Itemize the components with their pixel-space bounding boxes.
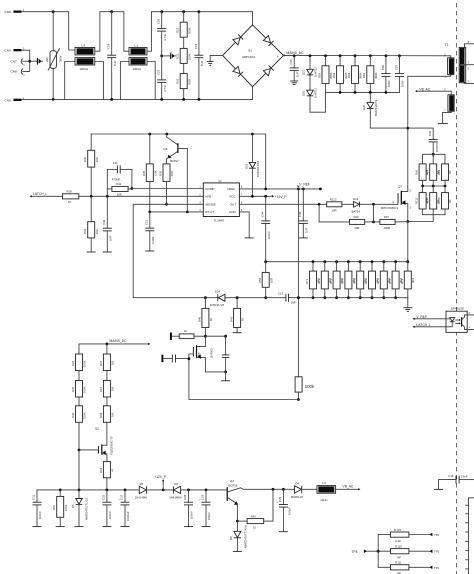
resistor R22 [176, 12, 192, 38]
ground at R39 [87, 251, 96, 253]
ground at D9 [233, 550, 242, 552]
capacitor C18 [194, 12, 204, 100]
svg-text:2.2K: 2.2K [395, 539, 401, 543]
resistor R94 [437, 164, 452, 186]
svg-text:BZX284-V18: BZX284-V18 [256, 161, 260, 177]
connector CN7 [11, 59, 30, 67]
wire MAINS_DC rail [284, 54, 451, 56]
svg-text:R111: R111 [395, 561, 402, 565]
capacitor at Q5 gate [172, 355, 189, 363]
wire rail down to bridge top [252, 12, 254, 25]
svg-text:D5: D5 [71, 504, 75, 508]
svg-text:LATCH_L: LATCH_L [416, 323, 430, 327]
diode D12 BAT54 [352, 197, 374, 213]
svg-text:10R: 10R [269, 278, 273, 283]
svg-text:C49: C49 [102, 219, 106, 225]
test point TP3 [429, 533, 439, 537]
svg-text:D8: D8 [174, 482, 178, 486]
shunt resistor R79 [400, 260, 415, 297]
svg-text:TP2: TP2 [434, 550, 440, 554]
node C28 [187, 489, 190, 492]
node CN4/CN7/CN8 junction [28, 60, 31, 63]
svg-text:D4: D4 [295, 481, 299, 485]
node R35 on SENSE line [165, 203, 168, 206]
svg-text:C11: C11 [113, 161, 118, 165]
node C25 bottom [160, 98, 163, 101]
resistor R34 [71, 344, 87, 381]
wire D30 to primary drain node [370, 127, 408, 129]
resistor R43 [237, 514, 273, 529]
svg-text:6.8K: 6.8K [154, 170, 158, 176]
optocoupler U5 SFH6106 [446, 306, 474, 332]
connector block right edge [466, 498, 474, 574]
svg-text:CN4: CN4 [5, 49, 11, 53]
svg-text:C33: C33 [201, 494, 205, 500]
svg-text:L4: L4 [82, 43, 86, 47]
ground at C33 [202, 526, 211, 528]
svg-text:1M: 1M [111, 412, 115, 417]
svg-text:1UF: 1UF [200, 60, 204, 66]
sense line mid segment [225, 297, 286, 299]
svg-text:R36: R36 [71, 386, 75, 392]
svg-text:D: D [410, 190, 412, 193]
Q3 collector line [243, 488, 294, 490]
svg-text:VCC: VCC [229, 195, 236, 199]
resistor R45 [142, 134, 158, 212]
svg-text:R37: R37 [99, 360, 103, 366]
transistor Q7 SPP17N80C3 [381, 185, 412, 222]
svg-text:MURS160T3: MURS160T3 [374, 99, 378, 116]
ground at C37 [121, 526, 130, 528]
capacitor C31 [32, 490, 43, 526]
resistor R63 [99, 462, 115, 490]
node V_REF vertical [297, 188, 300, 191]
ground at R47 [233, 332, 242, 334]
svg-text:R39: R39 [83, 228, 87, 234]
diode D30 [362, 92, 378, 128]
svg-text:R68: R68 [99, 412, 103, 418]
svg-text:Q3: Q3 [230, 479, 234, 483]
svg-text:T1: T1 [445, 43, 449, 47]
svg-text:+12V_P: +12V_P [275, 195, 288, 199]
svg-text:SPP17N80C3: SPP17N80C3 [381, 206, 399, 210]
svg-text:1UF: 1UF [295, 71, 299, 77]
node cap top [224, 335, 227, 338]
svg-text:R67: R67 [99, 386, 103, 392]
svg-text:VB_AC: VB_AC [419, 87, 430, 91]
svg-text:R41: R41 [116, 182, 122, 186]
capacitor C12 [278, 292, 296, 305]
wire Q5 drain to snubber cap [205, 335, 225, 337]
test point TP2 [429, 549, 439, 553]
svg-text:3.9nF: 3.9nF [460, 474, 467, 478]
svg-text:R64: R64 [332, 72, 336, 78]
node R33 bottom [182, 98, 185, 101]
capacitor C44 [261, 196, 271, 261]
svg-text:200K: 200K [187, 78, 191, 85]
svg-text:D6: D6 [140, 482, 144, 486]
svg-text:R33: R33 [176, 78, 180, 84]
svg-text:C26: C26 [157, 18, 161, 24]
inductor L4 (common-mode choke) [75, 43, 95, 70]
wire D20 loop to lower snubber bus [310, 92, 326, 112]
svg-text:D24: D24 [215, 289, 221, 293]
svg-text:MAINS_DC: MAINS_DC [110, 339, 128, 343]
svg-text:1K: 1K [209, 317, 213, 321]
capacitor C66 [428, 130, 439, 154]
capacitor C80 [381, 54, 391, 93]
svg-text:C29: C29 [278, 496, 282, 502]
svg-text:B1: B1 [249, 49, 253, 53]
svg-text:BCP56: BCP56 [229, 484, 238, 488]
earth ground at bridge [207, 62, 214, 66]
node R22 top [182, 10, 185, 13]
svg-text:10: 10 [253, 526, 257, 530]
wire L4 bottom-left to bottom rail [65, 62, 76, 100]
svg-text:2N7002: 2N7002 [209, 348, 213, 358]
svg-text:200K: 200K [187, 27, 191, 34]
svg-text:100nF: 100nF [108, 511, 112, 519]
svg-text:C30: C30 [289, 59, 293, 65]
svg-text:C32: C32 [102, 494, 106, 500]
svg-text:C66: C66 [428, 130, 432, 136]
resistor R39 [83, 196, 99, 251]
node bottom rail / varistor [52, 98, 55, 101]
test point network node [351, 535, 390, 568]
svg-text:1NF: 1NF [291, 300, 297, 304]
wire COMP line [132, 188, 203, 190]
wire L1 bottom-right to bottom rail [147, 62, 155, 100]
connector CN4 [5, 47, 30, 61]
wire OUT pin line [239, 203, 326, 205]
wire L1 top-right up to rail [147, 12, 253, 52]
svg-text:R83: R83 [362, 72, 366, 78]
zener D23 [244, 134, 260, 196]
wire L1 bottom-left to bottom rail [120, 62, 129, 100]
node D23 top on VREF rail [251, 133, 254, 136]
node gate divider [78, 449, 81, 452]
svg-text:BC817: BC817 [170, 159, 179, 163]
node R45 top on VREF rail [148, 133, 151, 136]
svg-text:100nF: 100nF [267, 231, 271, 239]
diode D4 MURD-20 [291, 481, 317, 499]
net label VB_AC at L3 [336, 485, 361, 491]
node C49/C11 on VFB line [106, 195, 109, 198]
sense line right segment [289, 297, 408, 299]
node Q7 source / R27 / snubber return [406, 220, 409, 223]
transistor Q2 FQD2N60C [79, 427, 114, 462]
node C44 top on VCC [264, 195, 267, 198]
resistor R40 [83, 134, 99, 196]
svg-text:R110: R110 [395, 544, 402, 548]
ground at D5 [75, 526, 84, 528]
svg-text:10K: 10K [95, 229, 99, 234]
node VREF rail joins pin line [264, 188, 267, 191]
terminal bar 1k input [170, 333, 179, 340]
resistor R110 [391, 544, 430, 559]
svg-text:47: 47 [111, 468, 115, 472]
node Q3 emitter [236, 520, 239, 523]
svg-text:CN8: CN8 [11, 70, 17, 74]
svg-text:4.7nF: 4.7nF [163, 85, 167, 92]
bridge rectifier B1 GBPC604 diamond [223, 25, 284, 87]
svg-text:V_REF: V_REF [299, 183, 310, 187]
node D12 cathode / R26 top [372, 203, 375, 206]
svg-text:C18: C18 [194, 43, 198, 49]
svg-text:TP3: TP3 [434, 533, 440, 537]
net label +12V_P [154, 475, 167, 491]
svg-text:R112: R112 [415, 197, 419, 204]
T1 secondary winding upper [459, 41, 474, 65]
svg-text:G: G [392, 201, 394, 204]
connector CN5 [5, 97, 54, 102]
svg-text:390: 390 [45, 57, 49, 62]
supply bus left segment [37, 489, 139, 491]
capacitor C49 [102, 196, 112, 251]
ground at C16 [434, 488, 443, 490]
svg-text:1N5241-V8: 1N5241-V8 [210, 303, 225, 307]
capacitor C87 [394, 54, 404, 92]
net label MAINS_DC at bridge output [284, 51, 304, 56]
resistor R35 [159, 164, 175, 204]
svg-text:C28: C28 [183, 494, 187, 500]
node C18 bottom [198, 98, 201, 101]
capacitor across Q5 [222, 336, 230, 372]
node Q5 drain [204, 335, 207, 338]
shunt resistor R71 [305, 260, 320, 299]
wire VREF rail corner down to VREF pin line [265, 134, 267, 189]
node C33 [205, 489, 208, 492]
node top rail / varistor [52, 10, 55, 13]
resistor R112 [415, 186, 430, 215]
node R43 feedback [272, 488, 275, 521]
svg-text:1K: 1K [68, 200, 72, 204]
shunt resistor R72 [317, 260, 332, 299]
ground at shunt bank [403, 298, 412, 312]
svg-text:1K8: 1K8 [170, 171, 174, 176]
svg-text:+: + [277, 55, 279, 59]
svg-text:R94: R94 [437, 169, 441, 175]
resistor R37 [99, 344, 115, 381]
resistor R50 [52, 490, 68, 526]
node C26/C25 midpoint [160, 55, 163, 58]
svg-text:D30: D30 [362, 104, 366, 110]
earth ground at C30 [290, 81, 298, 85]
svg-text:MMSZ4707T1-G1: MMSZ4707T1-G1 [84, 497, 88, 520]
wire L4 top-right up to rail [95, 12, 112, 52]
svg-text:1M: 1M [111, 360, 115, 365]
inductor L1 (common-mode choke) [129, 43, 147, 70]
resistor R67 [99, 381, 115, 406]
lower snubber bus [326, 91, 400, 93]
ground at C51 [145, 250, 154, 252]
net label +12V_P at VCC [272, 195, 287, 199]
svg-text:R44: R44 [71, 412, 75, 418]
resistor R64 [332, 54, 348, 93]
capacitor C11 [107, 161, 132, 182]
capacitor C19 [107, 12, 117, 100]
node C44/R58 on top bus [264, 260, 267, 263]
svg-text:MMSZ4707T1-GV: MMSZ4707T1-GV [243, 525, 247, 548]
svg-text:C31: C31 [32, 494, 36, 500]
svg-text:R32: R32 [176, 53, 180, 59]
shunt resistor R74 [341, 260, 356, 299]
svg-text:CN6: CN6 [5, 10, 11, 14]
svg-text:VREF: VREF [227, 187, 235, 191]
node COMP line [131, 187, 134, 190]
svg-text:D9: D9 [229, 536, 233, 540]
svg-text:2.2NF: 2.2NF [151, 236, 155, 244]
svg-text:CN5: CN5 [5, 98, 11, 102]
shunt resistor R77 [376, 260, 391, 299]
svg-text:R43: R43 [251, 514, 257, 518]
svg-text:R74: R74 [341, 278, 345, 284]
svg-text:C87: C87 [394, 64, 398, 70]
svg-text:R106: R106 [425, 197, 429, 204]
node snubber top bus [432, 153, 435, 156]
svg-text:D20: D20 [302, 90, 306, 96]
ground at R50 [56, 526, 65, 528]
svg-text:100nF: 100nF [190, 511, 194, 519]
node D21 top [309, 54, 312, 57]
node Q5 gate [188, 357, 191, 360]
net label V_REF [297, 183, 310, 188]
svg-text:100k: 100k [305, 384, 315, 389]
svg-text:OUT: OUT [230, 203, 237, 207]
node C37 [124, 489, 127, 492]
svg-text:R105: R105 [437, 197, 441, 204]
svg-text:FQD2N60C-TF: FQD2N60C-TF [110, 436, 114, 455]
wire rail to L1 top-left [112, 12, 130, 52]
transformer T1 label [445, 43, 449, 47]
svg-text:-: - [224, 55, 225, 59]
bottom rail segment [53, 98, 252, 100]
wire L4 bottom-right to bottom rail [95, 62, 104, 100]
capacitor C30 [289, 56, 299, 81]
net label VB_AC at aux winding [415, 87, 431, 92]
ground at C49 [103, 251, 112, 253]
terminal bar gate cap [161, 355, 171, 362]
svg-text:C51: C51 [145, 219, 149, 225]
snubber top bus [423, 154, 445, 164]
svg-text:100uF: 100uF [207, 512, 211, 520]
svg-text:D12: D12 [353, 197, 359, 201]
svg-text:R46: R46 [198, 316, 202, 322]
svg-text:10R: 10R [354, 226, 359, 230]
svg-text:100UH: 100UH [80, 67, 89, 71]
svg-text:1N4148W: 1N4148W [169, 495, 182, 499]
svg-text:1000uF: 1000uF [126, 511, 130, 521]
node R26/R27 junction [372, 204, 375, 223]
T1 primary winding [408, 54, 454, 79]
bridge diode bottom-right [263, 65, 273, 75]
svg-text:R63: R63 [99, 467, 103, 473]
svg-text:R72: R72 [317, 278, 321, 284]
node right chain top [106, 343, 109, 346]
svg-text:R123: R123 [394, 528, 401, 532]
svg-text:C25: C25 [157, 69, 161, 75]
capacitor C28 [183, 490, 194, 526]
svg-text:C37: C37 [120, 494, 124, 500]
svg-text:1UF: 1UF [113, 60, 117, 66]
shunt bank top bus [266, 261, 408, 263]
wire gate latch route [189, 359, 299, 400]
svg-text:100nF: 100nF [38, 511, 42, 519]
wire snubber branch to C66 [408, 128, 433, 139]
isolation boundary dashed line [456, 3, 458, 574]
svg-text:1N4148W: 1N4148W [135, 495, 148, 499]
resistor R122 [327, 198, 354, 213]
svg-text:470NF: 470NF [112, 177, 121, 181]
resistor R106 [425, 186, 440, 215]
wire RTCT line [150, 211, 204, 213]
shunt resistor R75 [352, 260, 367, 299]
svg-text:NF: NF [397, 555, 401, 559]
test point TP1 [429, 566, 439, 570]
svg-text:Q2: Q2 [95, 427, 99, 431]
svg-text:VFB: VFB [205, 195, 211, 199]
svg-text:R47: R47 [229, 316, 233, 322]
svg-text:3R3: 3R3 [411, 277, 415, 283]
capacitor C26 [157, 12, 167, 56]
svg-text:100K: 100K [83, 360, 87, 367]
node VREF line end [319, 188, 322, 191]
wire gate node to Q7 [374, 201, 398, 204]
node drain / snubber branch [406, 127, 409, 130]
svg-text:D23: D23 [244, 163, 248, 169]
ground at GND pin [245, 237, 254, 239]
svg-text:RT-CT: RT-CT [205, 210, 214, 214]
svg-text:100K: 100K [64, 504, 68, 511]
transistor Q3 BCP56 [227, 479, 243, 521]
svg-text:CN7: CN7 [11, 60, 17, 64]
svg-text:+12V_P: +12V_P [154, 475, 167, 479]
svg-text:R26: R26 [354, 215, 360, 219]
svg-text:TP1: TP1 [434, 566, 440, 570]
resistor R38 [32, 190, 204, 204]
shunt resistor R73 [329, 260, 344, 299]
zener D5 gate clamp [71, 490, 88, 526]
svg-text:C16: C16 [448, 474, 454, 478]
svg-text:TP4: TP4 [351, 550, 357, 554]
VREF rail [91, 133, 266, 135]
resistor R58 [258, 262, 273, 298]
svg-text:LATCH_L: LATCH_L [33, 192, 47, 196]
node R26 branch on OUT [318, 203, 321, 206]
svg-text:390V: 390V [59, 55, 63, 62]
op-amp U2 TL3845 controller [199, 180, 243, 222]
transistor Q5 2N7002 [189, 336, 213, 372]
PE arrow at CN junction [30, 58, 43, 65]
svg-text:R38: R38 [67, 190, 73, 194]
svg-text:10K: 10K [95, 157, 99, 162]
node lock resistor on sense line [297, 296, 300, 299]
diode D20 [302, 88, 318, 112]
svg-text:D21: D21 [302, 69, 306, 75]
svg-text:10R: 10R [331, 209, 336, 213]
svg-text:R77: R77 [376, 278, 380, 284]
node D23 bottom on VCC [251, 195, 254, 198]
shunt resistor R76 [364, 260, 379, 299]
capacitor C25 [157, 56, 167, 100]
sense line left segment [133, 297, 217, 299]
ground at C31 [33, 526, 42, 528]
node Q4 collector on VREF rail [165, 133, 168, 136]
transistor Q4 BC817 [163, 134, 187, 212]
ground at C29 [279, 531, 288, 533]
bridge diode top-right [263, 36, 273, 46]
svg-text:R71: R71 [305, 278, 309, 284]
